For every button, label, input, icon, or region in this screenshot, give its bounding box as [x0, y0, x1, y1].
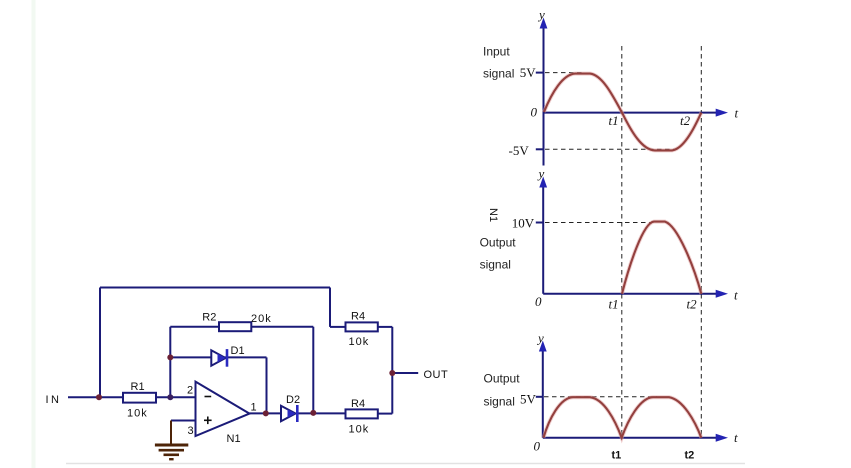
svg-text:y: y [537, 166, 545, 181]
svg-text:R1: R1 [131, 381, 145, 393]
diode D1 [211, 345, 244, 367]
svg-text:D1: D1 [231, 345, 245, 357]
svg-text:5V: 5V [520, 65, 537, 80]
svg-text:2: 2 [187, 385, 193, 397]
faint left stripe artifact [32, 0, 36, 468]
wire: R1 to op-amp pin2 [156, 396, 196, 398]
wire: D1 anode horizontal [170, 356, 266, 358]
svg-text:-5V: -5V [509, 143, 530, 158]
axis t (graph3) [543, 437, 717, 439]
svg-text:t: t [735, 106, 739, 121]
plus sign (non-inverting input) [204, 419, 212, 421]
svg-text:OUT: OUT [424, 369, 449, 381]
resistor R4 (top) [346, 310, 378, 347]
op-amp N1 [187, 382, 257, 445]
svg-text:0: 0 [531, 105, 538, 120]
svg-text:IN: IN [46, 394, 62, 406]
svg-text:N1: N1 [487, 208, 499, 222]
svg-text:t2: t2 [685, 450, 695, 462]
GRAPH 1 : input signal [483, 7, 739, 166]
svg-text:D2: D2 [286, 394, 300, 406]
wire: R4 top right stub [378, 326, 393, 328]
tick and dashed level +5V (graph1) [536, 72, 544, 74]
resistor R2 [202, 312, 271, 332]
junction: op-amp output / D1 cathode [263, 410, 269, 416]
svg-text:0: 0 [534, 439, 541, 454]
axis y (graph3) [542, 348, 544, 438]
wire: inverting node vertical [169, 327, 171, 398]
wire: left vertical of loop [99, 288, 101, 398]
wire: OUT segment [392, 372, 418, 374]
svg-text:10k: 10k [349, 423, 370, 435]
junction: IN / feedback loop [96, 394, 102, 400]
CIRCUIT [68, 288, 418, 421]
wire: D1 cathode vertical down [266, 357, 268, 413]
junction: OUT node [389, 370, 395, 376]
GRAPH 3 : rectified output [484, 331, 739, 462]
svg-text:3: 3 [188, 425, 194, 437]
rectified output curve [544, 397, 702, 438]
resistor R1 [123, 381, 156, 420]
axis t (graph1) [544, 112, 718, 114]
dashed marker line t1 (vertical) [621, 46, 623, 438]
faint bottom border artifact [66, 463, 745, 465]
resistor R4 (bottom) [346, 398, 378, 435]
ground [155, 421, 188, 460]
svg-text:10k: 10k [127, 408, 148, 420]
svg-text:signal: signal [483, 67, 514, 81]
N1 output hump curve [622, 222, 701, 294]
wire: R4 bottom right stub [378, 413, 393, 415]
tick and dashed level 5V (graph3) [536, 396, 543, 398]
svg-text:signal: signal [484, 395, 515, 409]
minus sign (inverting input) [205, 396, 212, 398]
wire: R2 right [251, 326, 313, 328]
dashed marker line t2 (vertical) [700, 46, 702, 438]
svg-text:y: y [536, 331, 544, 346]
wire: D2 cathode to R4 bottom [298, 412, 346, 414]
svg-text:y: y [537, 7, 545, 22]
svg-text:R4: R4 [351, 398, 365, 410]
svg-text:10k: 10k [349, 336, 370, 348]
junction: D1 anode [167, 354, 173, 360]
junction: R2 / D2 cathode rail [310, 410, 316, 416]
wire: top feedback loop horizontal [100, 287, 330, 289]
svg-text:R2: R2 [202, 312, 216, 324]
tick and dashed level -5V (graph1) [536, 148, 544, 150]
svg-text:20k: 20k [251, 313, 272, 325]
diode D2 [281, 394, 300, 422]
wire: op-amp pin3 horizontal [171, 420, 196, 422]
svg-text:10V: 10V [512, 216, 535, 231]
svg-text:Output: Output [480, 236, 517, 250]
wire: IN input segment [68, 396, 123, 398]
wire: loop down to R4 top [329, 288, 331, 327]
svg-text:0: 0 [535, 294, 542, 309]
svg-text:t2: t2 [687, 297, 698, 312]
svg-text:R4: R4 [351, 310, 365, 322]
axis y (graph2) [542, 184, 544, 294]
GRAPH 2 : N1 output [480, 166, 738, 312]
svg-text:t1: t1 [609, 113, 619, 128]
svg-text:t1: t1 [612, 450, 622, 462]
wire: R4 top left stub [330, 326, 346, 328]
svg-text:1: 1 [251, 402, 257, 414]
axis t (graph2) [543, 293, 717, 295]
wire: R2 vertical down to D2 output rail [312, 327, 314, 414]
svg-text:5V: 5V [520, 392, 537, 407]
wire: op-amp output to D2 anode [250, 412, 282, 414]
axis y (graph1) [543, 26, 545, 166]
svg-text:Output: Output [484, 372, 521, 386]
svg-text:t: t [734, 288, 738, 303]
wire: output vertical rail [391, 327, 393, 414]
tick and dashed level 10V (graph2) [536, 222, 543, 224]
wire: R2 left [170, 326, 219, 328]
svg-text:N1: N1 [227, 433, 241, 445]
svg-text:t: t [734, 430, 738, 445]
input sine curve [544, 74, 701, 151]
junction: pin2 inverting node [167, 394, 173, 400]
svg-text:t2: t2 [680, 113, 691, 128]
svg-text:t1: t1 [609, 297, 619, 312]
svg-text:signal: signal [480, 258, 511, 272]
svg-text:Input: Input [483, 45, 510, 59]
